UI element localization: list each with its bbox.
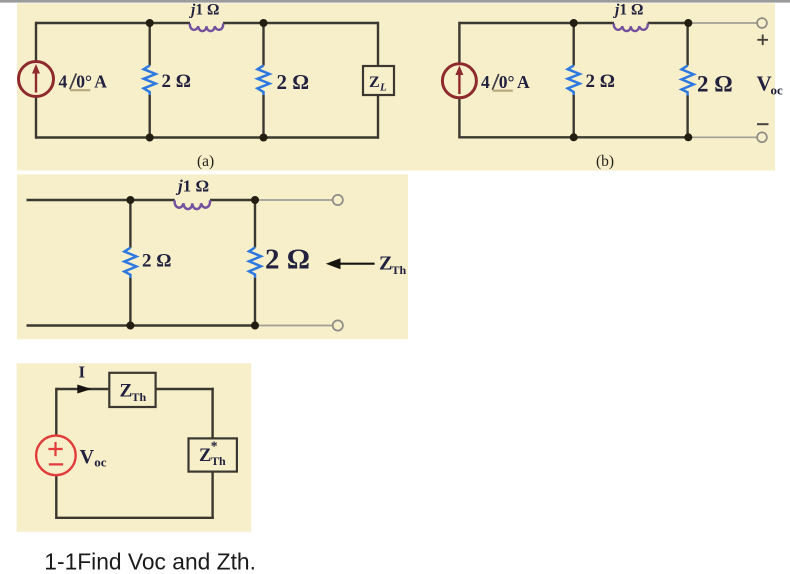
cream background panel (ZTh circuit) <box>17 174 408 339</box>
svg-text:A: A <box>517 72 530 92</box>
resistor R1 (mid) <box>129 199 131 327</box>
label 4/0° A (a) <box>59 72 108 92</box>
svg-text:2 Ω: 2 Ω <box>586 71 615 92</box>
cream background panel (Voc/ZTh load circuit) <box>17 363 252 532</box>
wire: top left segment a <box>36 22 190 24</box>
plus sign b <box>757 35 768 46</box>
current source I b <box>442 64 476 98</box>
arrow ZTh <box>338 263 375 265</box>
wire: top left segment <box>56 388 109 390</box>
terminal top b <box>757 18 767 28</box>
svg-text:j1 Ω: j1 Ω <box>612 2 643 19</box>
resistor R1 (b) <box>573 22 575 139</box>
wire: left vertical <box>55 388 57 519</box>
svg-text:Th: Th <box>132 390 147 404</box>
wire: left vertical a <box>35 22 37 139</box>
wire: top right segment <box>156 388 214 390</box>
svg-text:Z: Z <box>120 381 133 402</box>
wire: left vertical b <box>458 22 460 139</box>
wire: bottom <box>27 324 256 326</box>
node a2 <box>260 19 268 27</box>
node m4 <box>251 322 259 330</box>
label 4/0° A (b) <box>481 72 530 92</box>
svg-text:4: 4 <box>481 72 490 92</box>
wire: bottom b <box>459 136 688 138</box>
wire: bottom <box>56 517 214 519</box>
wire: thin gray to bottom terminal <box>255 325 333 327</box>
node b2 <box>684 19 692 27</box>
svg-text:V: V <box>757 72 772 96</box>
wire: right vertical a <box>377 22 379 139</box>
svg-text:1-1Find Voc and Zth.: 1-1Find Voc and Zth. <box>44 549 256 574</box>
wire: top left segment b <box>459 22 614 24</box>
node m2 <box>251 196 259 204</box>
node b4 <box>684 133 692 141</box>
svg-text:I: I <box>79 363 86 382</box>
node m1 <box>126 196 134 204</box>
terminal top (mid) <box>333 195 343 205</box>
voltage source Voc <box>36 436 76 476</box>
svg-text:2 Ω: 2 Ω <box>162 71 191 92</box>
terminal bottom (mid) <box>333 320 343 330</box>
node a4 <box>260 134 268 142</box>
resistor R1 (a) <box>148 22 150 139</box>
minus sign b <box>757 123 769 125</box>
inductor L (a) <box>190 23 223 31</box>
svg-text:(a): (a) <box>197 153 214 170</box>
svg-text:j1 Ω: j1 Ω <box>188 2 219 19</box>
svg-text:2 Ω: 2 Ω <box>697 72 733 97</box>
node a1 <box>146 19 154 27</box>
svg-text:Th: Th <box>392 263 407 277</box>
svg-text:2 Ω: 2 Ω <box>277 70 310 94</box>
svg-text:Z: Z <box>199 446 211 466</box>
svg-text:A: A <box>94 72 107 92</box>
svg-text:*: * <box>211 439 218 454</box>
node a3 <box>146 134 154 142</box>
wire: thin gray to top terminal b <box>688 22 757 24</box>
inductor L (b) <box>614 23 648 31</box>
svg-text:oc: oc <box>94 455 107 470</box>
svg-text:2 Ω: 2 Ω <box>265 244 310 276</box>
resistor R2 (mid) <box>254 199 256 327</box>
node m3 <box>126 322 134 330</box>
resistor R2 (a) <box>262 22 264 139</box>
current source I a <box>19 62 54 97</box>
svg-text:0°: 0° <box>76 72 92 92</box>
svg-text:Th: Th <box>211 454 226 468</box>
svg-text:4: 4 <box>59 72 68 92</box>
node b3 <box>570 133 578 141</box>
load box ZL <box>363 66 394 95</box>
top gray rule <box>0 0 790 3</box>
svg-text:2 Ω: 2 Ω <box>142 251 171 272</box>
node b1 <box>570 19 578 27</box>
svg-text:0°: 0° <box>499 72 515 92</box>
terminal bottom b <box>757 132 767 142</box>
impedance box ZTh <box>109 373 155 407</box>
inductor L (mid) <box>175 200 211 209</box>
wire: top right segment b <box>648 22 689 24</box>
resistor R2 (b) <box>686 22 688 139</box>
svg-text:Z: Z <box>379 253 392 275</box>
wire: thin gray to bottom terminal b <box>688 136 757 138</box>
svg-text:j1 Ω: j1 Ω <box>175 177 209 196</box>
svg-text:Z: Z <box>369 74 380 91</box>
svg-text:(b): (b) <box>596 153 614 170</box>
wire: top mid segment <box>210 199 255 201</box>
wire: top left segment <box>27 199 175 201</box>
svg-text:oc: oc <box>771 83 784 98</box>
impedance box ZTh conjugate <box>189 438 237 471</box>
wire: right vertical <box>211 388 213 519</box>
cream background strip (circuits a and b) <box>17 3 775 170</box>
svg-text:V: V <box>80 446 95 468</box>
wire: bottom a <box>36 136 378 138</box>
wire: top right segment a <box>223 22 378 24</box>
current arrow I <box>77 385 91 394</box>
wire: thin gray to top terminal <box>255 199 333 201</box>
svg-text:L: L <box>379 82 387 94</box>
